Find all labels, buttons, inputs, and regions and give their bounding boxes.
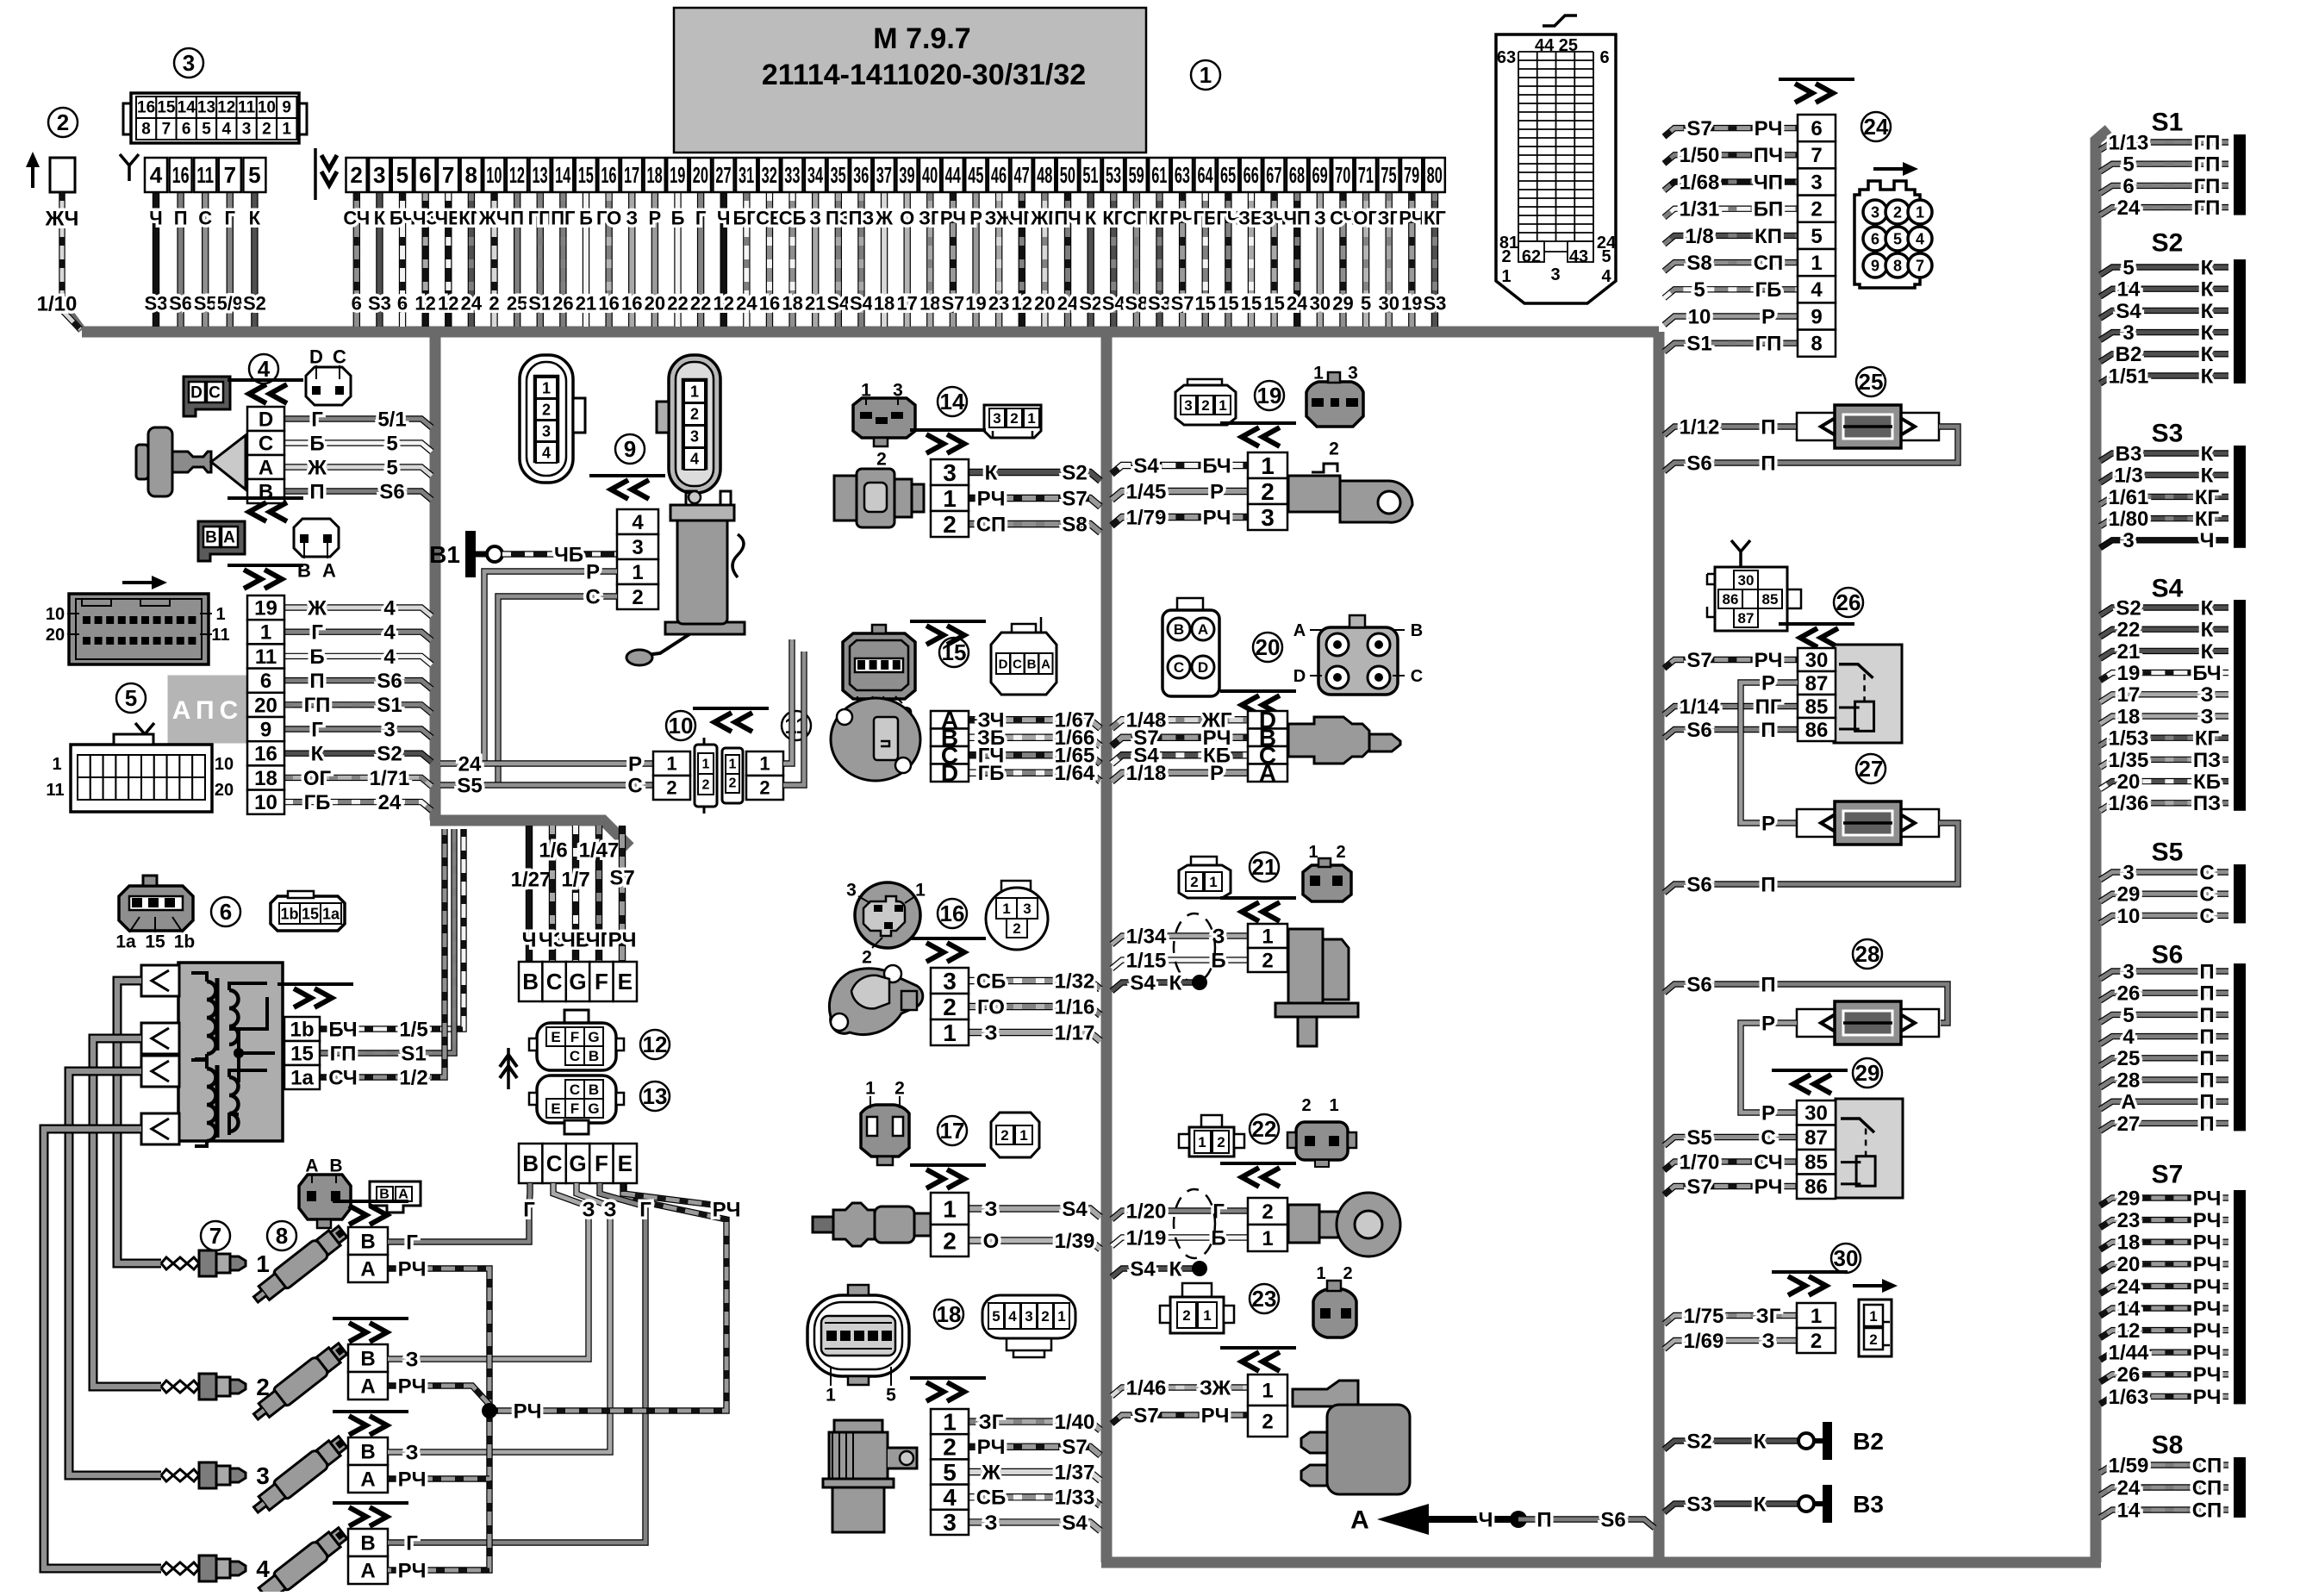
svg-text:ГП: ГП — [2194, 153, 2221, 177]
svg-text:B: B — [259, 480, 273, 503]
svg-text:А: А — [223, 529, 235, 547]
svg-text:В: В — [205, 529, 217, 547]
component 24 pin 8 wire S1 ГП — [1664, 343, 1798, 352]
svg-text:4: 4 — [1008, 1308, 1017, 1325]
svg-text:6: 6 — [1871, 230, 1879, 247]
svg-text:1/16: 1/16 — [1055, 995, 1095, 1019]
svg-text:23: 23 — [1252, 1286, 1277, 1312]
svg-text:РЧ: РЧ — [398, 1375, 427, 1398]
svg-text:S2: S2 — [1062, 461, 1087, 484]
S7 wire 18 РЧ — [2100, 1242, 2228, 1250]
svg-text:14: 14 — [555, 162, 571, 188]
svg-text:86: 86 — [1805, 719, 1829, 742]
svg-text:79: 79 — [1404, 162, 1419, 188]
svg-text:КГ: КГ — [2195, 727, 2220, 751]
svg-text:ГЧ: ГЧ — [1216, 208, 1240, 229]
svg-text:1/47: 1/47 — [579, 839, 620, 862]
svg-text:14: 14 — [2117, 1297, 2141, 1320]
ECU pin 75 wire ЗГ to 30 — [1386, 192, 1393, 327]
svg-text:П: П — [1761, 873, 1775, 896]
svg-text:3: 3 — [2122, 321, 2134, 345]
svg-text:S7: S7 — [1062, 487, 1087, 510]
svg-text:S8: S8 — [1062, 513, 1087, 536]
svg-text:S2: S2 — [2152, 229, 2184, 258]
svg-text:18: 18 — [2117, 1231, 2141, 1255]
svg-text:1: 1 — [1308, 843, 1318, 862]
svg-text:1: 1 — [1200, 62, 1212, 88]
pin 1 wire З to S4 — [969, 1209, 1100, 1218]
pin 3 wire СБ to 1/32 — [969, 981, 1100, 989]
svg-text:В2: В2 — [2116, 343, 2142, 366]
svg-text:D: D — [309, 346, 323, 368]
ECU pin 70 wire СЧ to 29 — [1339, 192, 1346, 327]
svg-text:G: G — [569, 1150, 586, 1176]
svg-text:2: 2 — [943, 1227, 957, 1254]
svg-text:15: 15 — [1218, 293, 1238, 315]
HT wire coil output 1 to spark plug 1 — [117, 981, 161, 1263]
component 5 pin 11 wire Б to 4 — [284, 656, 432, 664]
svg-text:1/10: 1/10 — [37, 292, 78, 315]
svg-text:Г: Г — [311, 718, 323, 741]
svg-text:3: 3 — [256, 1462, 270, 1489]
ECU pin 7 wire ЧБ to 12 — [445, 192, 452, 327]
sensor 19 body (speed) — [1288, 476, 1340, 512]
svg-text:3: 3 — [242, 121, 252, 139]
node РЧ junction — [482, 1403, 497, 1418]
svg-text:5: 5 — [2122, 256, 2134, 279]
svg-text:25: 25 — [1859, 369, 1884, 395]
svg-text:5: 5 — [396, 162, 408, 188]
svg-text:18: 18 — [919, 293, 940, 315]
svg-text:6: 6 — [419, 162, 431, 188]
svg-text:S6: S6 — [377, 670, 402, 693]
svg-text:С: С — [627, 774, 642, 797]
svg-text:S7: S7 — [1062, 1436, 1087, 1459]
ECU pin 10 wire ЖЧ to 2 — [490, 192, 497, 327]
injector 4 — [249, 1524, 350, 1596]
svg-text:К: К — [2201, 278, 2214, 302]
pin 3 wire К to S2 — [969, 472, 1100, 481]
svg-text:2: 2 — [1190, 874, 1198, 890]
svg-text:Ж: Ж — [875, 208, 893, 229]
svg-text:С: С — [2199, 861, 2214, 884]
pin D wire ГБ to 1/64 — [969, 773, 1100, 782]
ECU pin 80 wire КГ to S3 — [1431, 192, 1438, 327]
component 21 crankshaft sensor — [1250, 852, 1279, 882]
wire С return to pump — [783, 651, 804, 785]
svg-text:СБ: СБ — [976, 969, 1007, 993]
wire З injector 2 pin B — [388, 1206, 589, 1359]
svg-text:К: К — [249, 208, 261, 229]
harness arrow (26) — [1779, 622, 1854, 626]
wire ЧБ 1/7 to BCGFE upper — [572, 826, 579, 962]
svg-text:ПЗ: ПЗ — [849, 208, 875, 229]
injector 2 — [249, 1340, 350, 1425]
svg-text:A: A — [259, 456, 273, 479]
svg-text:В: В — [522, 1150, 539, 1176]
svg-text:G: G — [588, 1100, 599, 1117]
svg-text:В: В — [360, 1347, 375, 1370]
svg-text:РЧ: РЧ — [2193, 1297, 2222, 1320]
component 3 connector 16-pin — [174, 48, 203, 78]
svg-text:З: З — [626, 208, 638, 229]
component 12 connector oval — [640, 1030, 670, 1059]
HT wire coil output 4 to spark plug 4 — [44, 1129, 161, 1568]
svg-text:1: 1 — [256, 1250, 270, 1277]
S4 wire 18 З — [2100, 716, 2228, 724]
svg-text:РЧ: РЧ — [398, 1559, 427, 1582]
component 24 pin 1 wire S8 СП — [1664, 263, 1798, 271]
svg-text:А: А — [1041, 657, 1050, 671]
ECU pin 6 wire ЧЗ to 12 — [421, 192, 428, 327]
S4 wire 19 БЧ — [2100, 673, 2228, 681]
svg-text:С: С — [546, 969, 563, 994]
svg-text:1/6: 1/6 — [539, 839, 567, 862]
component 5 pin 16 wire К to S2 — [284, 753, 432, 762]
svg-text:30: 30 — [1804, 1102, 1828, 1125]
svg-text:К: К — [2201, 365, 2214, 388]
svg-text:Г: Г — [406, 1231, 418, 1254]
svg-text:К: К — [1754, 1430, 1767, 1453]
svg-text:ЗГ: ЗГ — [919, 208, 942, 229]
svg-text:20: 20 — [1034, 293, 1055, 315]
svg-text:СП: СП — [1754, 252, 1784, 275]
svg-text:П: П — [1536, 1508, 1551, 1531]
svg-text:S8: S8 — [2152, 1431, 2184, 1460]
ECU pin 45 wire Р to 19 — [972, 192, 979, 327]
svg-text:1/51: 1/51 — [2109, 365, 2149, 388]
sensor 14 body — [834, 476, 857, 521]
svg-text:50: 50 — [1060, 162, 1075, 188]
S6 wire 25 П — [2100, 1058, 2228, 1066]
svg-text:21: 21 — [2117, 640, 2141, 664]
svg-text:17: 17 — [940, 1118, 965, 1144]
svg-text:П: П — [1761, 452, 1775, 475]
svg-text:Р: Р — [1761, 812, 1775, 835]
icon connector plug B A — [294, 519, 339, 557]
svg-text:Б: Б — [309, 432, 324, 455]
component 5 APS immobilizer — [116, 683, 146, 713]
svg-text:Г: Г — [639, 1198, 651, 1221]
ECU pin 32 wire СБ to 16 — [766, 192, 773, 327]
svg-text:1: 1 — [1209, 874, 1217, 890]
svg-text:ПЧ: ПЧ — [1754, 144, 1783, 167]
svg-text:2: 2 — [1343, 1264, 1352, 1283]
svg-text:ЧП: ЧП — [1284, 208, 1311, 229]
svg-text:69: 69 — [1312, 162, 1328, 188]
svg-text:S8: S8 — [1125, 293, 1148, 315]
component 9 fuel module — [615, 434, 645, 464]
S6 wire 27 П — [2100, 1123, 2228, 1131]
S7 wire 29 РЧ — [2100, 1198, 2228, 1206]
svg-text:14: 14 — [2117, 1499, 2141, 1522]
svg-text:РЧ: РЧ — [2193, 1209, 2222, 1232]
svg-text:П: П — [309, 480, 324, 503]
svg-text:3: 3 — [183, 50, 195, 76]
S3 wire 3 Ч — [2100, 540, 2228, 548]
node black-pink splice — [1510, 1511, 1527, 1528]
wire S7 РЧ (23 pin 2) — [1112, 1415, 1248, 1424]
svg-text:А: А — [1198, 621, 1208, 638]
svg-text:9: 9 — [1871, 257, 1879, 274]
svg-text:23: 23 — [2117, 1209, 2141, 1232]
svg-text:47: 47 — [1013, 162, 1029, 188]
component 25 fuse — [1856, 367, 1886, 396]
icon 5-4-3-2-1 white (18) — [982, 1295, 1075, 1338]
S3 wire 1/61 КГ — [2100, 496, 2228, 504]
svg-text:1/14: 1/14 — [1680, 695, 1720, 719]
svg-text:З: З — [984, 1198, 997, 1221]
svg-text:3: 3 — [943, 1509, 957, 1536]
component 5 pin 10 wire ГБ to 24 — [284, 802, 432, 811]
HT wire coil output 3 to spark plug 3 — [69, 1071, 161, 1475]
svg-text:18: 18 — [2117, 705, 2141, 728]
svg-text:15: 15 — [1263, 293, 1284, 315]
sensor 21 body (CKP) — [1288, 929, 1323, 1003]
svg-text:4: 4 — [383, 596, 396, 620]
HT wire coil output 2 to spark plug 2 — [93, 1038, 161, 1387]
svg-text:12: 12 — [643, 1032, 668, 1057]
coil pin 1a wire СЧ to 1/2 — [320, 829, 445, 1077]
svg-text:C: C — [209, 384, 221, 402]
coil HT output 4 — [141, 1113, 179, 1144]
component 23 purge valve — [1250, 1284, 1279, 1313]
svg-text:Ж: Ж — [307, 596, 327, 620]
svg-text:ГБ: ГБ — [978, 762, 1005, 785]
svg-text:К: К — [374, 208, 386, 229]
svg-text:4: 4 — [383, 621, 396, 645]
component 4 pin B wire П to S6 — [284, 491, 432, 500]
svg-text:РЧ: РЧ — [398, 1257, 427, 1281]
svg-text:5: 5 — [886, 1385, 896, 1405]
svg-text:12: 12 — [217, 99, 235, 117]
svg-text:2: 2 — [1261, 478, 1275, 505]
component 30 pin 2 wire 1/69 З — [1664, 1341, 1797, 1350]
component 24 pin 2 wire 1/31 БП — [1664, 209, 1798, 217]
svg-text:19: 19 — [2117, 662, 2141, 685]
wire 1/12 П to fuse 25 — [1664, 427, 1796, 435]
svg-text:2: 2 — [1010, 410, 1018, 427]
svg-text:6: 6 — [1599, 48, 1609, 67]
icon 2-1 white (23) — [1182, 1283, 1212, 1297]
svg-text:К: К — [2201, 300, 2214, 323]
ECU pin 44 wire РЧ to S7 — [950, 192, 957, 327]
svg-text:26: 26 — [552, 293, 573, 315]
svg-text:1/59: 1/59 — [2109, 1454, 2149, 1477]
spark plug 2 — [161, 1381, 199, 1387]
svg-text:1/15: 1/15 — [1126, 949, 1167, 972]
svg-text:Б: Б — [1211, 949, 1225, 972]
svg-text:4: 4 — [690, 450, 699, 467]
ECU pin 47 wire ЧГ to 12 — [1019, 192, 1025, 327]
svg-text:S4: S4 — [2152, 575, 2184, 603]
svg-text:17: 17 — [896, 293, 917, 315]
svg-text:П: П — [2199, 960, 2214, 983]
svg-text:1: 1 — [260, 621, 271, 645]
S6 wire 4 П — [2100, 1037, 2228, 1044]
svg-text:С: С — [1174, 659, 1184, 676]
svg-text:ЗГ: ЗГ — [979, 1411, 1004, 1434]
icon 3-2-1 white hood (19) — [1187, 379, 1222, 391]
svg-text:К: К — [1169, 1257, 1182, 1281]
icon round 9-pin (24) — [1854, 181, 1920, 288]
svg-text:17: 17 — [624, 162, 639, 188]
relay 26 pin 87 wire Р — [1798, 671, 1836, 695]
svg-text:1: 1 — [1203, 1307, 1211, 1324]
svg-text:1/70: 1/70 — [1680, 1150, 1720, 1174]
svg-text:3: 3 — [943, 459, 957, 486]
svg-text:85: 85 — [1805, 695, 1829, 719]
svg-text:РЧ: РЧ — [2193, 1253, 2222, 1276]
svg-text:1b: 1b — [290, 1018, 314, 1041]
svg-text:З: З — [1761, 1330, 1774, 1353]
component 13 connector oval — [640, 1082, 670, 1111]
svg-text:7: 7 — [162, 121, 171, 139]
svg-text:1/44: 1/44 — [2109, 1342, 2149, 1365]
wire Р relay26 pin87 to fuse 27 — [1741, 683, 1798, 823]
svg-text:48: 48 — [1037, 162, 1052, 188]
svg-text:КБ: КБ — [2193, 770, 2221, 794]
ECU pin 14 wire ПГ to 26 — [559, 192, 566, 327]
svg-text:К: К — [985, 461, 998, 484]
pin А wire ЗЧ to 1/67 — [969, 720, 1100, 728]
spark plug 3 — [161, 1469, 199, 1475]
ECU pin 8 wire КП to 24 — [468, 192, 475, 327]
ECU pin 37 wire Ж to 18 — [881, 192, 888, 327]
sensor 17 body (lambda) — [813, 1217, 833, 1232]
pin 2 wire Р 1/45 — [1112, 491, 1248, 500]
svg-text:S1: S1 — [2152, 109, 2184, 137]
svg-text:1/19: 1/19 — [1126, 1226, 1167, 1250]
svg-text:РЧ: РЧ — [713, 1198, 741, 1221]
harness arrow at APS pins — [228, 564, 303, 567]
svg-text:ЖЧ: ЖЧ — [45, 207, 79, 230]
svg-text:9: 9 — [1811, 305, 1822, 328]
svg-text:5: 5 — [202, 121, 211, 139]
wire S4 К shield drain (22) — [1112, 1269, 1193, 1277]
svg-text:19: 19 — [670, 162, 685, 188]
svg-text:24: 24 — [2117, 1476, 2141, 1499]
coil pin 1b wire БЧ to 1/5 — [320, 829, 464, 1029]
component 29 fan relay — [1853, 1058, 1882, 1088]
svg-text:S8: S8 — [1686, 252, 1711, 275]
svg-text:3: 3 — [1550, 265, 1560, 284]
svg-text:1a: 1a — [290, 1066, 314, 1089]
svg-text:З: З — [809, 208, 821, 229]
svg-text:2: 2 — [1013, 920, 1020, 937]
ECU pin 63 wire РЧ to S7 — [1179, 192, 1186, 327]
harness arrow (15) — [910, 620, 986, 623]
svg-text:Ж: Ж — [981, 1461, 1000, 1484]
svg-text:4: 4 — [632, 511, 644, 534]
harness arrow (20) — [1220, 689, 1296, 693]
svg-text:2: 2 — [489, 293, 499, 315]
svg-text:44 25: 44 25 — [1535, 36, 1578, 55]
svg-text:37: 37 — [876, 162, 892, 188]
S3 wire 1/3 К — [2100, 475, 2228, 483]
component 24 pin 6 wire S7 РЧ — [1664, 128, 1798, 137]
svg-text:1/75: 1/75 — [1684, 1305, 1724, 1328]
S6 wire 26 П — [2100, 993, 2228, 1001]
svg-text:1: 1 — [52, 755, 61, 774]
svg-text:1a: 1a — [322, 905, 340, 922]
relay 26 pin 30 wire РЧ — [1664, 660, 1798, 669]
svg-text:С: С — [1411, 667, 1423, 686]
svg-text:В1: В1 — [429, 541, 460, 568]
component 22 knock sensor — [1250, 1114, 1279, 1144]
svg-text:3: 3 — [1871, 203, 1879, 221]
svg-text:16: 16 — [759, 293, 780, 315]
svg-text:3: 3 — [1023, 901, 1031, 917]
svg-text:ПГ: ПГ — [1755, 695, 1782, 719]
svg-text:23: 23 — [988, 293, 1009, 315]
svg-text:7: 7 — [1916, 257, 1924, 274]
svg-text:21: 21 — [805, 293, 826, 315]
svg-text:1/20: 1/20 — [1126, 1200, 1167, 1223]
svg-text:4: 4 — [222, 121, 232, 139]
svg-text:6: 6 — [260, 670, 271, 693]
component 20 oxygen sensor — [1253, 633, 1282, 662]
svg-text:Р: Р — [1210, 480, 1224, 503]
svg-text:61: 61 — [1151, 162, 1167, 188]
svg-text:Б: Б — [1211, 1226, 1225, 1250]
svg-text:4: 4 — [2122, 1026, 2135, 1049]
ECU pin 15 wire Б to 21 — [583, 192, 589, 327]
svg-text:Ч: Ч — [1479, 1508, 1493, 1531]
svg-text:30: 30 — [1310, 293, 1331, 315]
component 30 connector — [1831, 1244, 1861, 1273]
svg-text:19: 19 — [1401, 293, 1422, 315]
svg-text:1: 1 — [826, 1385, 836, 1405]
relay 29 pin 85 wire СЧ — [1664, 1162, 1797, 1170]
icon relay socket 30-86-85-87 (26) — [1731, 540, 1750, 567]
sensor 15 body — [831, 698, 920, 781]
component 28 fuse — [1853, 939, 1882, 969]
svg-text:В: В — [589, 1048, 599, 1064]
svg-text:19: 19 — [1257, 383, 1282, 408]
svg-text:2: 2 — [632, 586, 643, 609]
coil HT output 3 — [141, 1056, 179, 1087]
fuel pump body drawing — [665, 622, 745, 634]
S4 wire 22 К — [2100, 629, 2228, 637]
svg-text:19: 19 — [254, 597, 277, 620]
svg-text:6: 6 — [182, 121, 191, 139]
svg-text:43: 43 — [1569, 247, 1588, 266]
icon oval connector 4-pin left — [520, 355, 573, 483]
svg-text:В: В — [1174, 621, 1184, 638]
svg-text:1/53: 1/53 — [2109, 727, 2149, 751]
svg-text:1: 1 — [1261, 452, 1275, 479]
wire harness branch right vertical — [1654, 332, 1665, 1562]
svg-text:D: D — [999, 657, 1008, 671]
svg-text:2: 2 — [350, 162, 362, 188]
svg-text:6: 6 — [1811, 117, 1822, 140]
svg-text:А: А — [1350, 1506, 1369, 1535]
svg-text:31: 31 — [739, 162, 754, 188]
svg-text:РЧ: РЧ — [977, 1436, 1006, 1459]
harness arrow (19) — [1220, 421, 1296, 425]
svg-text:24: 24 — [1057, 293, 1079, 315]
ECU pin 53 wire КГ to S4 — [1110, 192, 1117, 327]
component 24 pin 3 wire 1/68 ЧП — [1664, 182, 1798, 190]
svg-text:А: А — [360, 1375, 375, 1398]
svg-text:S6: S6 — [379, 480, 404, 503]
svg-text:5: 5 — [386, 456, 397, 479]
svg-text:К: К — [2201, 596, 2214, 620]
wire 1/20 Г (22 pin 2) — [1112, 1211, 1248, 1219]
svg-text:А: А — [2121, 1091, 2135, 1114]
pin 1 wire З to 1/17 — [969, 1032, 1100, 1041]
